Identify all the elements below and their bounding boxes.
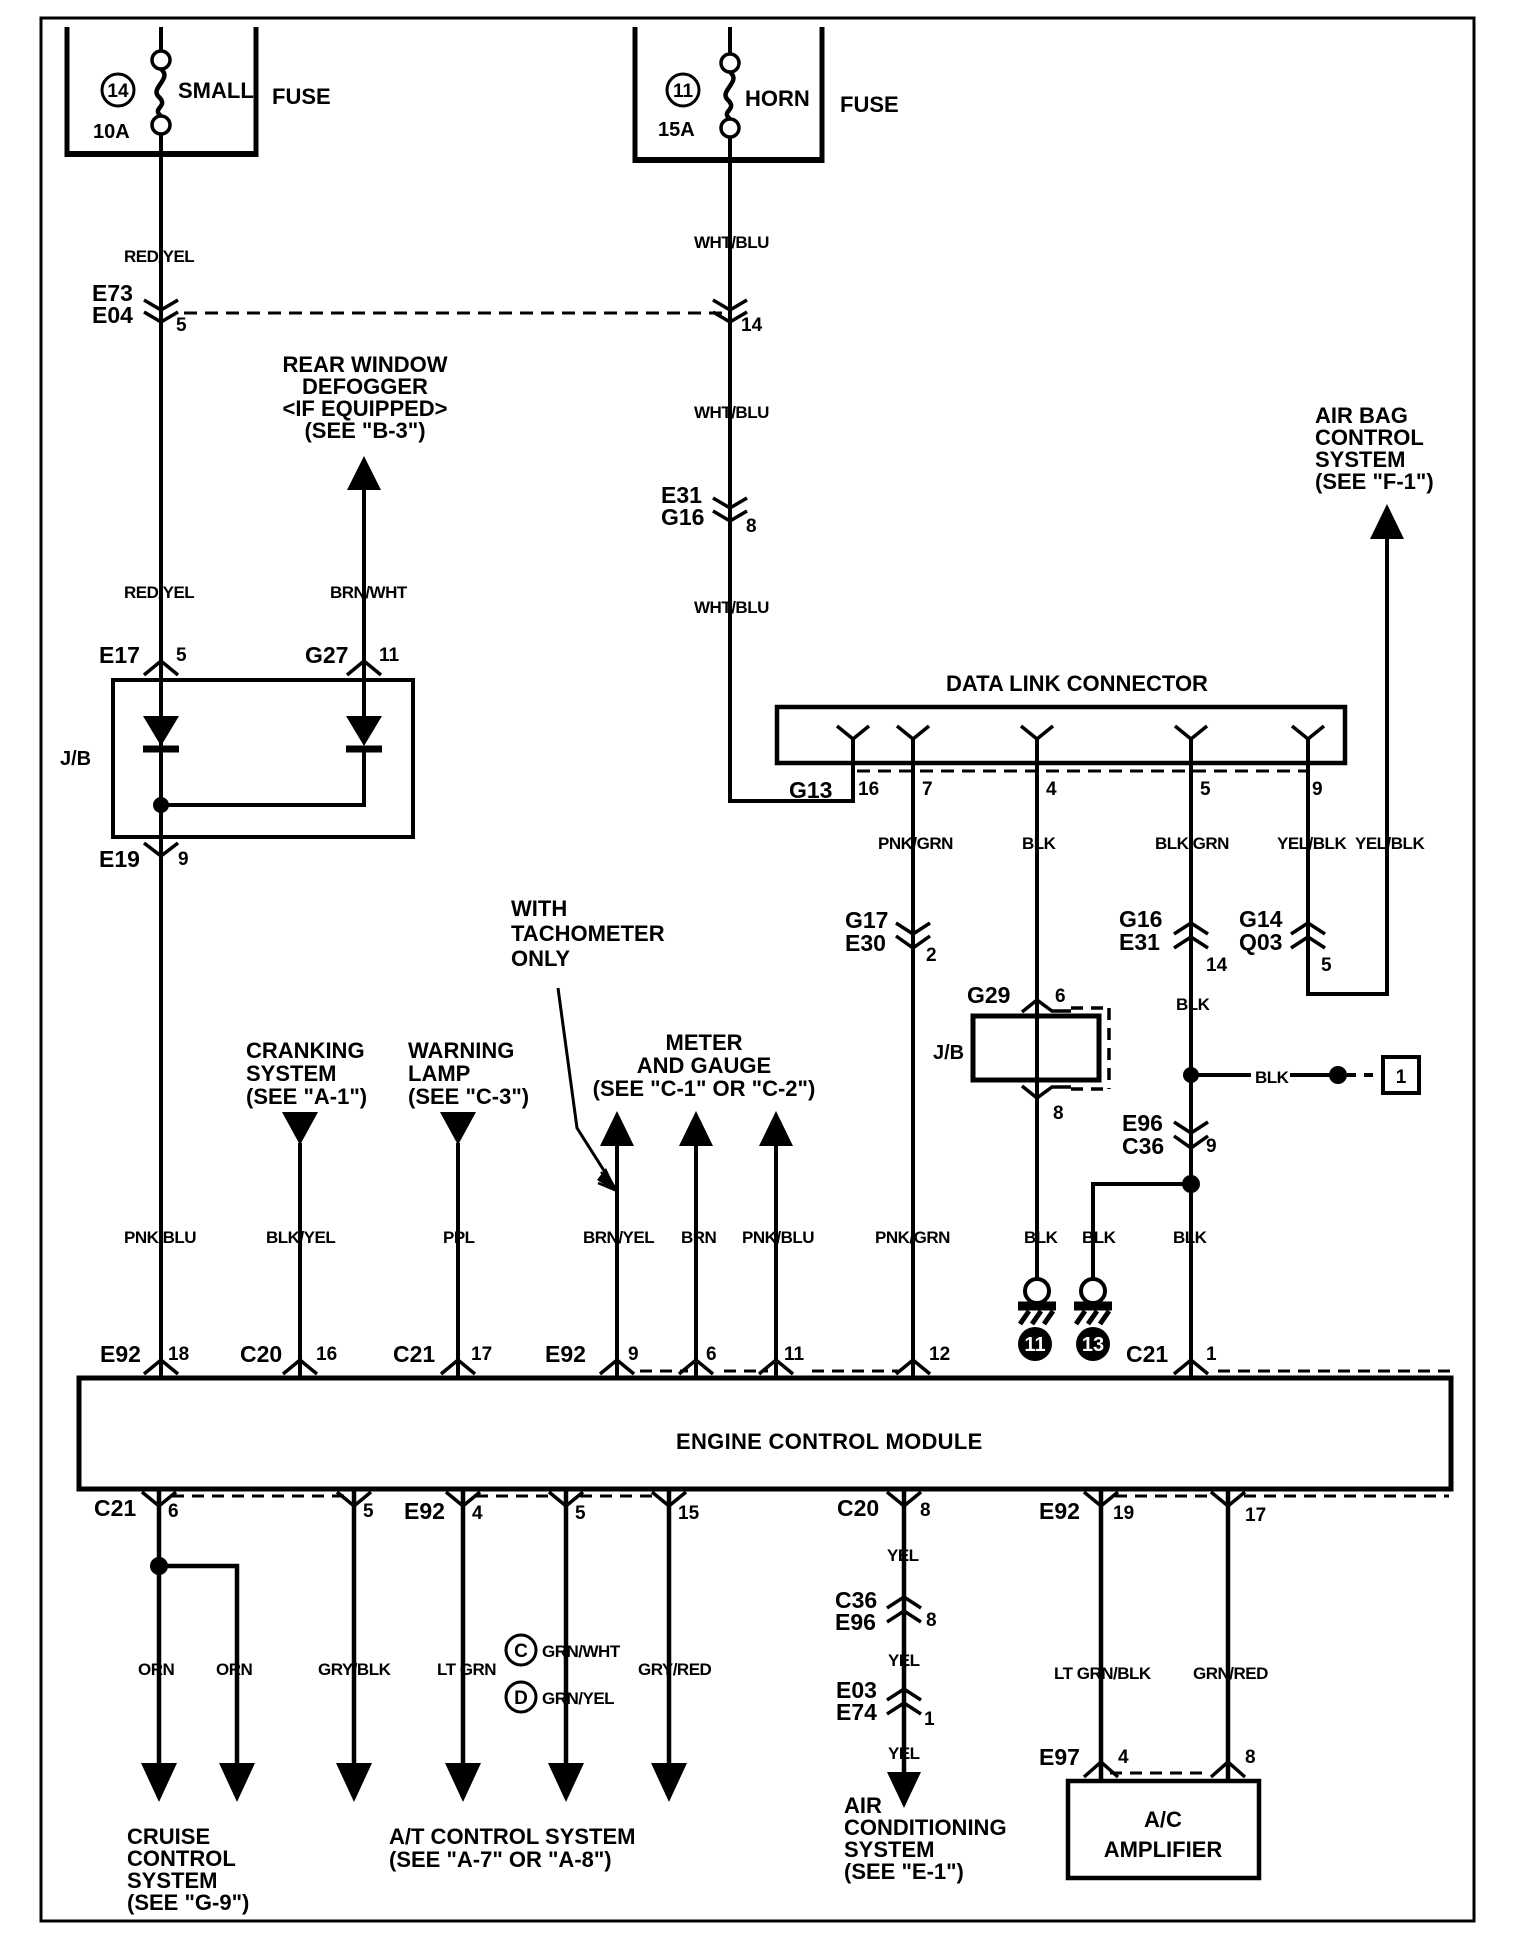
arrow to A/T control (GRY/RED) (651, 1763, 687, 1802)
connector E31/G16 double chevron (713, 498, 747, 521)
svg-text:PNK/BLU: PNK/BLU (742, 1228, 814, 1247)
svg-text:E96: E96 (835, 1609, 876, 1635)
connector E31/G16 labels (661, 482, 704, 530)
wire GRY/RED (667, 1489, 672, 1763)
wire YEL from C20-8 (902, 1489, 907, 1774)
svg-text:9: 9 (178, 849, 189, 870)
svg-text:15A: 15A (658, 119, 695, 141)
junction dot ORN branch (150, 1557, 168, 1575)
fuse F11 number circle 11 (667, 74, 699, 106)
grounding point box 1 (1383, 1057, 1419, 1093)
svg-text:8: 8 (926, 1610, 937, 1631)
svg-text:LT GRN: LT GRN (437, 1660, 496, 1679)
svg-text:BLK: BLK (1255, 1068, 1290, 1087)
wire elbow horn to DLC pin 16 (730, 739, 853, 801)
arrow to cranking system (282, 1112, 318, 1145)
svg-text:G16: G16 (661, 504, 704, 530)
arrow to A/T control (middle) (548, 1763, 584, 1802)
svg-text:E92: E92 (100, 1341, 141, 1367)
svg-text:E30: E30 (845, 930, 886, 956)
svg-text:11: 11 (784, 1344, 805, 1365)
svg-text:11: 11 (379, 645, 400, 666)
svg-text:YEL: YEL (888, 1744, 920, 1763)
svg-text:YEL/BLK: YEL/BLK (1355, 834, 1425, 853)
svg-text:G13: G13 (789, 777, 832, 803)
svg-text:BLK: BLK (1176, 995, 1211, 1014)
svg-text:WHT/BLU: WHT/BLU (694, 598, 769, 617)
svg-text:RED/YEL: RED/YEL (124, 247, 194, 266)
DLC dashed line below box (857, 770, 1306, 773)
svg-text:E17: E17 (99, 642, 140, 668)
data link connector box (777, 707, 1345, 763)
wire BLK/GRN from DLC pin 5 to ECM (1189, 739, 1193, 1378)
svg-text:METER: METER (666, 1030, 743, 1055)
connector pin G27 chevron (347, 661, 381, 675)
ECM bottom pin E92-19 (1039, 1492, 1134, 1524)
svg-text:TACHOMETER: TACHOMETER (511, 921, 665, 946)
E97 dashed segment (1110, 1772, 1210, 1775)
ECM pin C21-1 (1126, 1341, 1217, 1374)
svg-text:8: 8 (1245, 1747, 1256, 1768)
svg-text:BRN: BRN (681, 1228, 717, 1247)
svg-text:E92: E92 (404, 1498, 445, 1524)
svg-text:17: 17 (1245, 1505, 1266, 1526)
svg-text:WHT/BLU: WHT/BLU (694, 403, 769, 422)
wire link diodes to junction (161, 752, 364, 805)
svg-text:BLK: BLK (1022, 834, 1057, 853)
ground number circle 13 (1076, 1327, 1110, 1361)
A/C amplifier pin 4 chevron (1084, 1762, 1118, 1777)
DLC pin fork 5 (1175, 726, 1207, 763)
svg-text:C21: C21 (1126, 1341, 1168, 1367)
svg-text:C21: C21 (393, 1341, 435, 1367)
wire BRN/WHT defogger branch (362, 488, 366, 718)
junction dot in J/B (153, 797, 169, 813)
ECM bottom pin 5 (E92) (549, 1492, 586, 1524)
A/C amplifier pin 8 chevron (1211, 1762, 1245, 1777)
svg-text:CRANKING: CRANKING (246, 1038, 365, 1063)
diode D2 (346, 716, 382, 749)
svg-text:GRY/BLK: GRY/BLK (318, 1660, 392, 1679)
svg-text:2: 2 (926, 945, 937, 966)
arrow to warning lamp (440, 1112, 476, 1145)
cranking system note text (246, 1038, 367, 1109)
ground symbol G11 (1018, 1279, 1056, 1324)
junction dot on branch (1329, 1066, 1347, 1084)
svg-text:5: 5 (176, 315, 187, 336)
svg-text:YEL/BLK: YEL/BLK (1277, 834, 1347, 853)
wire: left main RED/YEL vertical run (159, 134, 163, 1378)
svg-text:RED/YEL: RED/YEL (124, 583, 194, 602)
arrow to cruise control (1) (141, 1763, 177, 1802)
ECM pin 6 (679, 1344, 717, 1374)
connector chevron pair on horn wire (713, 300, 747, 322)
svg-text:Q03: Q03 (1239, 929, 1282, 955)
ECM bottom pin C21-6 (94, 1492, 179, 1522)
svg-text:A/T CONTROL SYSTEM: A/T CONTROL SYSTEM (389, 1824, 636, 1849)
arrow to meter (PNK/BLU) (759, 1111, 793, 1146)
arrow to cruise control (2) (219, 1763, 255, 1802)
wire YEL/BLK from DLC pin 9 (1306, 739, 1310, 996)
with tachometer only note (511, 896, 665, 971)
svg-text:14: 14 (741, 315, 763, 336)
svg-text:5: 5 (1321, 955, 1332, 976)
svg-text:FUSE: FUSE (840, 92, 899, 117)
connector G14/Q03 double chevron (1291, 923, 1325, 948)
option circle D (506, 1682, 536, 1712)
connector E96/C36 labels (1122, 1110, 1164, 1159)
ECM bottom dashed segments (172, 1495, 1449, 1498)
svg-text:5: 5 (363, 1501, 374, 1522)
svg-text:ONLY: ONLY (511, 946, 570, 971)
DLC pin fork 7 (897, 726, 929, 763)
ECM bottom pin C20-8 (837, 1492, 931, 1521)
svg-text:D: D (514, 1688, 528, 1709)
svg-text:9: 9 (628, 1344, 639, 1365)
svg-text:9: 9 (1206, 1136, 1217, 1157)
svg-text:J/B: J/B (60, 748, 91, 770)
svg-text:YEL: YEL (887, 1546, 919, 1565)
diode D1 (143, 716, 179, 749)
svg-text:BLK/GRN: BLK/GRN (1155, 834, 1229, 853)
svg-text:GRY/RED: GRY/RED (638, 1660, 712, 1679)
fuse F14 element symbol (152, 51, 170, 134)
wire BRN (694, 1144, 698, 1378)
wire PNK/BLU meter (774, 1144, 778, 1378)
svg-text:YEL: YEL (888, 1651, 920, 1670)
svg-text:BRN/YEL: BRN/YEL (583, 1228, 654, 1247)
connector C36/E96 double chevron (887, 1597, 921, 1622)
wire branch to ground 13 (1093, 1184, 1191, 1278)
connector G16/E31 double chevron (1174, 923, 1208, 948)
ECM pin 12 (896, 1344, 950, 1374)
fuse F14 number circle 14 (102, 74, 134, 106)
junction dot to grounding point 1 (1183, 1067, 1199, 1083)
wire GRN/RED from pin 17 (1226, 1489, 1231, 1781)
arrow to rear window defogger (347, 456, 381, 490)
svg-text:19: 19 (1113, 1503, 1134, 1524)
svg-text:17: 17 (471, 1344, 492, 1365)
connector pin E19 chevron (144, 843, 178, 856)
svg-text:BLK/YEL: BLK/YEL (266, 1228, 335, 1247)
wire BLK from DLC pin 4 (1035, 739, 1039, 1278)
svg-text:WARNING: WARNING (408, 1038, 514, 1063)
DLC pin fork 4 (1021, 726, 1053, 763)
svg-text:16: 16 (858, 779, 879, 800)
wire BRN/YEL (615, 1144, 619, 1378)
svg-text:10A: 10A (93, 121, 130, 143)
svg-text:J/B: J/B (933, 1042, 964, 1064)
svg-text:(SEE "C-1" OR "C-2"): (SEE "C-1" OR "C-2") (593, 1076, 816, 1101)
svg-text:6: 6 (706, 1344, 717, 1365)
wire BLK branch to grounding point 1 (1191, 1073, 1331, 1077)
wire ORN from C21-6 (157, 1489, 162, 1763)
ECM pin C20-16 (240, 1341, 337, 1374)
arrow to A/T control (GRY/BLK) (336, 1763, 372, 1802)
svg-text:E31: E31 (1119, 929, 1160, 955)
dashed lead to grounding point 1 (1347, 1073, 1383, 1077)
svg-text:5: 5 (176, 645, 187, 666)
ECM pin E92-9 (545, 1341, 639, 1374)
ground number circle 11 (1018, 1327, 1052, 1361)
fuse F11 box (633, 27, 825, 160)
J/B box 2 dashed extension (1071, 1008, 1109, 1089)
svg-text:1: 1 (1396, 1067, 1407, 1088)
svg-text:C20: C20 (240, 1341, 282, 1367)
ECM bottom pin 5 (C21) (337, 1492, 374, 1522)
connector E73/E04 double chevron (144, 300, 178, 322)
arrow to air conditioning system (887, 1772, 921, 1808)
svg-text:1: 1 (1206, 1344, 1217, 1365)
cruise control system note text (127, 1824, 249, 1915)
ECM bottom pin E92-4 (404, 1492, 483, 1524)
connector G17/E30 labels (845, 907, 888, 956)
A/C amplifier title (1104, 1807, 1223, 1862)
connector G14/Q03 labels (1239, 906, 1283, 955)
svg-text:7: 7 (922, 779, 933, 800)
svg-text:AMPLIFIER: AMPLIFIER (1104, 1837, 1223, 1862)
svg-text:15: 15 (678, 1503, 700, 1524)
wire PNK/GRN from DLC pin 7 to ECM (911, 739, 915, 1378)
svg-text:SYSTEM: SYSTEM (246, 1061, 336, 1086)
wire LT GRN (461, 1489, 466, 1763)
arrow to meter (BRN/YEL) (600, 1111, 634, 1146)
meter and gauge note text (593, 1030, 816, 1101)
svg-text:E74: E74 (836, 1699, 877, 1725)
svg-text:ORN: ORN (216, 1660, 253, 1679)
wire LT GRN/BLK from E92-19 (1099, 1489, 1104, 1781)
svg-text:(SEE "C-3"): (SEE "C-3") (408, 1084, 529, 1109)
svg-text:(SEE "B-3"): (SEE "B-3") (304, 418, 425, 443)
junction block J/B box 2 (973, 1016, 1099, 1080)
svg-text:14: 14 (107, 81, 129, 102)
svg-text:4: 4 (1046, 779, 1057, 800)
pointer line from note to BRN/YEL wire (558, 988, 618, 1193)
svg-text:G29: G29 (967, 982, 1010, 1008)
arrow to meter (BRN) (679, 1111, 713, 1146)
wire GRY/BLK (352, 1489, 357, 1763)
svg-text:BLK: BLK (1024, 1228, 1059, 1247)
ECM bottom pin 15 (652, 1492, 700, 1524)
svg-text:BLK: BLK (1173, 1228, 1208, 1247)
warning lamp note text (408, 1038, 529, 1109)
svg-text:HORN: HORN (745, 86, 810, 111)
svg-text:18: 18 (168, 1344, 189, 1365)
connector E73/E04 labels (92, 280, 133, 328)
svg-text:13: 13 (1082, 1334, 1104, 1356)
engine control module box (79, 1378, 1451, 1489)
fuse F14 box (65, 27, 259, 154)
rear window defogger note text (282, 352, 447, 443)
svg-text:(SEE "A-7" OR "A-8"): (SEE "A-7" OR "A-8") (389, 1847, 612, 1872)
svg-text:LAMP: LAMP (408, 1061, 470, 1086)
svg-text:E92: E92 (545, 1341, 586, 1367)
ECM pin 11 (759, 1344, 805, 1374)
connector E03/E74 labels (836, 1677, 877, 1725)
svg-text:FUSE: FUSE (272, 84, 331, 109)
ECM pin E92-18 (100, 1341, 189, 1374)
svg-text:8: 8 (1053, 1103, 1064, 1124)
svg-text:PNK/GRN: PNK/GRN (878, 834, 953, 853)
svg-text:14: 14 (1206, 955, 1228, 976)
ECM bottom pin 17 (1211, 1492, 1266, 1526)
dashed link E73/E04 to horn wire (184, 312, 723, 315)
connector pin G29/6 chevron (1022, 1000, 1071, 1012)
svg-text:E19: E19 (99, 846, 140, 872)
svg-text:SMALL: SMALL (178, 78, 254, 103)
svg-text:5: 5 (575, 1503, 586, 1524)
svg-text:8: 8 (920, 1500, 931, 1521)
wire ORN branch (159, 1566, 237, 1763)
svg-text:(SEE "F-1"): (SEE "F-1") (1315, 469, 1434, 494)
svg-text:PNK/GRN: PNK/GRN (875, 1228, 950, 1247)
arrow to A/T control (LT GRN) (445, 1763, 481, 1802)
svg-text:C36: C36 (1122, 1133, 1164, 1159)
svg-text:(SEE "E-1"): (SEE "E-1") (844, 1859, 964, 1884)
ground symbol G13b (1074, 1279, 1112, 1324)
svg-text:4: 4 (472, 1503, 483, 1524)
wire YEL/BLK to air bag system (1308, 537, 1387, 994)
wire PPL warning lamp (456, 1143, 460, 1378)
svg-text:GRN/WHT: GRN/WHT (542, 1642, 621, 1661)
svg-text:C: C (514, 1641, 528, 1662)
svg-text:12: 12 (929, 1344, 950, 1365)
fuse F11 element symbol (721, 54, 739, 137)
svg-text:11: 11 (1024, 1334, 1045, 1356)
connector pin E17 chevron (144, 661, 178, 675)
svg-text:11: 11 (673, 81, 694, 102)
svg-text:E97: E97 (1039, 1744, 1080, 1770)
svg-text:BRN/WHT: BRN/WHT (330, 583, 408, 602)
connector E03/E74 double chevron (887, 1689, 921, 1714)
svg-text:4: 4 (1118, 1747, 1129, 1768)
wire: left main RED/YEL feed above fuse (159, 27, 163, 51)
svg-text:GRN/RED: GRN/RED (1193, 1664, 1268, 1683)
A/C amplifier box (1068, 1781, 1259, 1878)
ECM top dashed segments (640, 1370, 1450, 1373)
svg-text:GRN/YEL: GRN/YEL (542, 1689, 614, 1708)
wire BLK/YEL cranking (298, 1143, 302, 1378)
connector C36/E96 labels (835, 1587, 877, 1635)
svg-text:ENGINE CONTROL MODULE: ENGINE CONTROL MODULE (676, 1429, 983, 1454)
svg-text:PPL: PPL (443, 1228, 475, 1247)
junction block J/B box (diodes) (113, 680, 413, 837)
ECM pin C21-17 (393, 1341, 492, 1374)
svg-text:6: 6 (168, 1501, 179, 1522)
svg-text:LT GRN/BLK: LT GRN/BLK (1054, 1664, 1152, 1683)
svg-text:6: 6 (1055, 986, 1066, 1007)
DLC pin fork 9 (1292, 726, 1324, 763)
connector E96/C36 double chevron (1174, 1122, 1208, 1148)
svg-text:G27: G27 (305, 642, 348, 668)
svg-text:1: 1 (924, 1709, 935, 1730)
DLC pin fork 16 (837, 726, 869, 763)
wire C GRN/WHT / D GRN/YEL (564, 1489, 569, 1763)
wire: horn WHT/BLU feed above fuse (728, 27, 732, 54)
svg-text:WHT/BLU: WHT/BLU (694, 233, 769, 252)
svg-text:5: 5 (1200, 779, 1211, 800)
svg-text:DATA LINK CONNECTOR: DATA LINK CONNECTOR (946, 671, 1208, 696)
svg-text:(SEE "G-9"): (SEE "G-9") (127, 1890, 249, 1915)
svg-text:PNK/BLU: PNK/BLU (124, 1228, 196, 1247)
wire: horn WHT/BLU vertical run (728, 137, 732, 803)
svg-text:16: 16 (316, 1344, 337, 1365)
svg-text:C20: C20 (837, 1495, 879, 1521)
svg-text:E92: E92 (1039, 1498, 1080, 1524)
arrow to air bag control system (1370, 504, 1404, 539)
option circle C (506, 1635, 536, 1665)
svg-text:AND GAUGE: AND GAUGE (637, 1053, 771, 1078)
air bag control system note text (1315, 403, 1434, 494)
svg-text:(SEE "A-1"): (SEE "A-1") (246, 1084, 367, 1109)
svg-text:C21: C21 (94, 1495, 136, 1521)
svg-text:E04: E04 (92, 302, 133, 328)
connector G17/E30 double chevron (896, 923, 930, 948)
svg-text:ORN: ORN (138, 1660, 175, 1679)
svg-text:8: 8 (746, 516, 757, 537)
connector pin G29/8 chevron (1022, 1086, 1071, 1098)
svg-text:BLK: BLK (1082, 1228, 1117, 1247)
connector G16/E31 labels (1119, 906, 1162, 955)
junction dot ground branch (1182, 1175, 1200, 1193)
svg-text:WITH: WITH (511, 896, 567, 921)
air conditioning system note text (844, 1793, 1007, 1884)
svg-text:A/C: A/C (1144, 1807, 1182, 1832)
svg-text:9: 9 (1312, 779, 1323, 800)
A/T control system note text (389, 1824, 636, 1872)
